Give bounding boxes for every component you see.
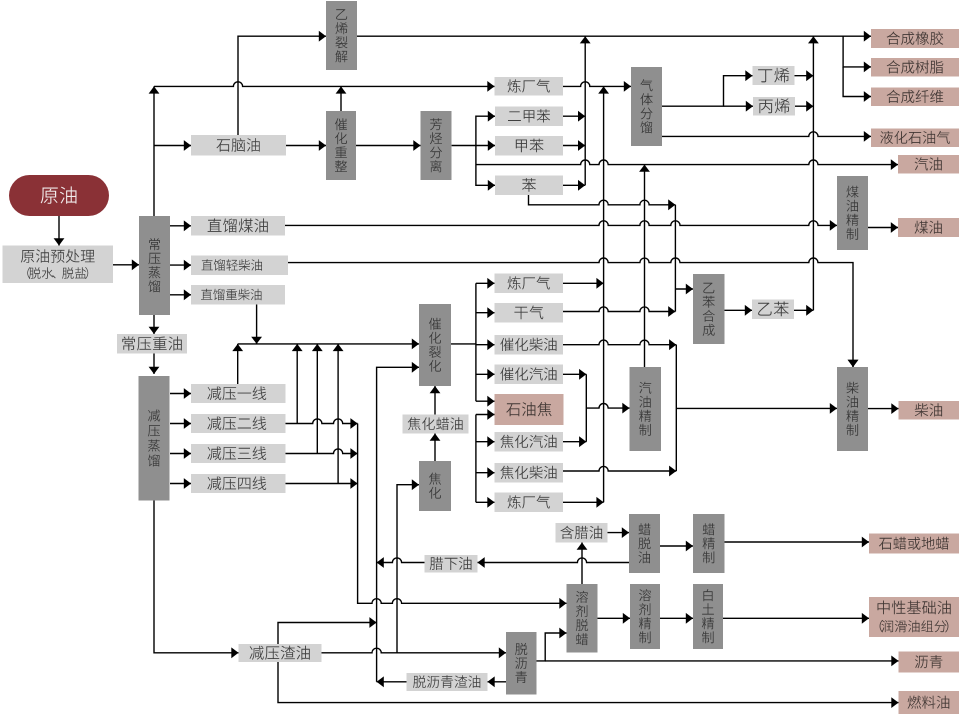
wire EB vertical: [674, 205, 676, 312]
product 柴油 diesel: [899, 401, 959, 420]
wire vac-line2 riser (arrow up): [292, 344, 303, 424]
wire solvent-dewaxing up -> waxy oil: [577, 543, 588, 585]
wire crude->pretreat: [54, 216, 65, 246]
product 汽油 gasoline: [898, 155, 959, 174]
process 原油预处理（脱水、脱盐）: [3, 246, 114, 284]
product 石油焦 petroleum coke: [495, 394, 564, 425]
wire propylene -> olefin riser: [795, 101, 813, 112]
wire naphtha riser -> ethylene cracking: [238, 31, 326, 135]
wire olefin riser up to products rail: [808, 36, 819, 310]
stream 直馏重柴油: [191, 285, 285, 305]
wire vac-line1 riser (arrow up): [232, 344, 243, 384]
stream 丙烯 propylene: [753, 97, 795, 116]
wire refinery-gas#3 -> gas riser: [563, 497, 604, 508]
stream 焦化蜡油: [403, 415, 469, 434]
wire wax-deoiling -> slack wax (腊下油): [478, 557, 630, 568]
wire diesel-refining -> 柴油: [868, 403, 899, 414]
wire solvent collector down -> solvent dewaxing: [358, 424, 567, 609]
wire vac-dist -> line2: [170, 418, 191, 429]
terminator crude-oil 原油: [9, 175, 109, 216]
product 石蜡或地蜡 paraffin/ozokerite: [869, 534, 959, 554]
process 催化裂化 (catalytic cracking): [419, 304, 451, 386]
wire benzene -> aromatics riser: [563, 180, 585, 191]
wire vac-line4 east: [286, 478, 358, 489]
wire coker wax oil up -> FCC: [430, 386, 441, 415]
wire refinery-gas#2 -> gas riser: [563, 278, 604, 289]
stream 焦化柴油: [495, 463, 564, 483]
wire gas-frac -> LPG: [662, 131, 871, 142]
process 白土精制 (clay refining): [693, 584, 723, 649]
process 柴油精制 (diesel refining): [837, 367, 868, 451]
stream 炼厂气 #3: [495, 493, 564, 513]
wire aromatics fan: to benzene: [476, 146, 495, 191]
process 蜡脱油 (wax de-oiling): [629, 514, 660, 573]
stream 直馏煤油: [191, 216, 285, 236]
wire reformer up to gas rail: [336, 86, 347, 111]
process 乙烯裂解 (ethylene cracking): [326, 1, 357, 70]
wire FCC-gasoline -> gasoline collector: [563, 369, 586, 380]
wire wax-deoiling -> wax refining: [660, 541, 693, 552]
process 煤油精制 (kerosene refining): [837, 176, 868, 250]
wire vac-line3 east: [286, 448, 358, 459]
wire coker feed riser: [397, 479, 419, 653]
wire upper fan vertical: [475, 283, 477, 401]
wire coker up -> coker wax oil: [430, 434, 441, 462]
product 沥青 asphalt: [899, 652, 959, 673]
wire reformer -> aromatics separation: [356, 140, 421, 151]
wire deasphalting -> split: [537, 628, 567, 661]
wire slack wax -> recycle riser: [377, 557, 425, 568]
process 减压蒸馏 (vacuum distillation): [139, 376, 170, 501]
wire vacuum-residue top -> FCC recycle riser: [278, 617, 377, 644]
product 煤油 kerosene: [898, 218, 959, 237]
stream 催化汽油: [495, 365, 564, 385]
wire atm-dist -> naphtha: [154, 140, 191, 151]
wire fan -> coker gasoline: [476, 436, 495, 447]
product 合成橡胶 synthetic rubber: [871, 29, 959, 48]
wire gas riser up to gas-fractionation rail: [598, 86, 609, 502]
wire ethylbenzene -> olefin riser: [794, 305, 813, 316]
stream 石脑油 naphtha: [191, 135, 286, 156]
wire fan -> petroleum coke (upper): [476, 396, 495, 407]
wire coker-gasoline -> gasoline collector: [563, 436, 586, 447]
product 合成纤维 synthetic fiber: [871, 88, 959, 107]
stream 丁烯 butene: [753, 66, 795, 85]
wire aromatics fan: to xylene: [452, 111, 495, 146]
stream 减压三线: [191, 444, 286, 463]
wire xylene -> aromatics riser: [563, 111, 585, 122]
wire waxy-oil -> wax deoiling: [608, 527, 630, 538]
stream 减压渣油 vacuum residue: [239, 644, 322, 662]
wire refinery-gas#1 -> gas fractionation: [563, 81, 631, 92]
wire vac-dist -> line4: [170, 478, 191, 489]
process 乙苯合成 (ethylbenzene synthesis): [693, 274, 725, 344]
stream 乙苯 ethylbenzene: [752, 300, 794, 320]
product 合成树脂 synthetic resin: [871, 58, 959, 77]
stream 二甲苯 xylene: [495, 107, 563, 127]
stream 减压一线: [191, 384, 286, 403]
wire deasphalted residue -> recycle riser: [377, 676, 407, 687]
stream 含腊油 waxy oil: [556, 523, 608, 543]
stream 焦化汽油: [495, 432, 564, 452]
wire straight-run heavy diesel down to FCC rail: [251, 305, 262, 344]
wire fan -> refinery gas#2: [476, 278, 495, 289]
wire diesel collector -> diesel refining: [676, 403, 837, 414]
wire fan -> FCC gasoline: [476, 369, 495, 380]
wire solvent-dewaxing -> solvent refining: [598, 613, 631, 624]
wire toluene -> aromatics riser: [563, 140, 585, 151]
wire FCC recycle riser -> catalytic cracking: [377, 362, 419, 682]
wire coker-diesel east -> diesel collector: [563, 466, 676, 477]
wire gasoline rail -> 汽油: [476, 159, 898, 170]
stream 腊下油: [425, 555, 478, 573]
wire vac-line2 east -> solvent collector: [286, 418, 358, 429]
wire aromatics fan: to toluene: [476, 140, 495, 151]
stream 直馏轻柴油: [191, 256, 288, 276]
process 脱沥青 (deasphalting): [506, 632, 537, 695]
wire pretreat->atm-dist: [113, 259, 139, 270]
wire EB vertical -> EB synthesis: [675, 284, 693, 295]
wire vac-dist -> line1: [170, 388, 191, 399]
process 催化重整 (catalytic reforming): [326, 111, 356, 180]
stream 干气 dry gas: [495, 303, 564, 323]
stream 炼厂气 #2: [495, 274, 564, 294]
wire fan -> petroleum coke (lower): [476, 409, 495, 420]
wire fan -> refinery gas#3: [476, 497, 495, 508]
stream 炼厂气 #1: [495, 77, 564, 96]
wire FCC -> product fan: [451, 343, 476, 345]
wire benzene bottom -> EB rail: [529, 195, 676, 210]
wire FCC-diesel east -> diesel collector: [563, 339, 676, 350]
wire vac-dist bottom -> vacuum residue: [154, 501, 239, 659]
product 中性基础油（润滑油组分）: [869, 597, 959, 637]
wire vac-dist -> line3: [170, 448, 191, 459]
wire gasoline-refining riser up to gasoline rail: [639, 165, 650, 367]
stream 脱沥青渣油: [407, 673, 488, 691]
wire vacuum-residue bottom -> fuel oil: [278, 662, 899, 708]
wire vac-line4 riser (arrow up): [333, 344, 344, 484]
wire gas rail -> refinery-gas#1: [154, 81, 495, 92]
process 蜡精制 (wax refining): [693, 514, 725, 573]
wire lower fan vertical: [475, 415, 477, 503]
wire clay-refining -> neutral base oil: [723, 613, 869, 624]
wire kerosene rail -> kerosene refining: [285, 220, 837, 231]
wire solvent-refining -> clay refining: [660, 613, 693, 624]
wire kerosene-refining -> 煤油: [868, 222, 898, 233]
stream 减压二线: [191, 414, 286, 433]
product 燃料油 fuel oil: [899, 691, 959, 714]
wire gasoline collector -> gasoline refining: [586, 403, 629, 414]
process 溶剂精制 (solvent refining): [630, 584, 660, 649]
process 芳烃分离 (aromatics separation): [421, 111, 452, 180]
wire diesel top-feed arrowhead: [848, 360, 859, 367]
stream 减压四线: [191, 474, 286, 493]
wire EB-synthesis -> ethylbenzene: [725, 305, 753, 316]
wire atm-dist -> straight-run heavy diesel: [170, 289, 191, 300]
wire straight-run light diesel -> diesel refining top: [288, 258, 858, 367]
wire vacuum-residue rail -> deasphalting: [322, 647, 507, 658]
wire deasphalting -> deasphalted residue: [488, 676, 507, 687]
stream 甲苯 toluene: [495, 136, 563, 156]
process 气体分馏 (gas fractionation): [631, 67, 662, 146]
wire gasoline collector vertical: [585, 374, 587, 441]
stream 常压重油: [117, 334, 187, 354]
wire naphtha -> reformer: [286, 140, 326, 151]
process 溶剂脱蜡 (solvent dewaxing): [567, 584, 598, 653]
wire diesel collector vertical: [675, 345, 677, 471]
wire FCC feed rail: [238, 339, 419, 350]
stream 苯 benzene: [495, 176, 563, 196]
wire branch down to resin/fiber: [843, 36, 871, 72]
wire wax-refining -> paraffin: [725, 537, 870, 548]
wire branch to synthetic fiber: [843, 67, 871, 102]
wire deasphalting -> asphalt: [545, 656, 898, 667]
process 焦化 (coking): [419, 461, 451, 511]
process 常压蒸馏 (atmospheric distillation): [139, 216, 170, 315]
wire gas-frac -> propylene: [724, 101, 754, 112]
wire atm-heavy-oil -> vacuum distillation: [149, 354, 160, 375]
wire atm-dist top riser to gas rail (arrow up): [149, 86, 160, 216]
wire atm-dist -> straight-run light diesel: [170, 260, 191, 271]
wire aromatics riser up to products rail: [580, 36, 591, 185]
stream 催化柴油: [495, 335, 564, 355]
wire ethylene-cracker -> synthetic rubber rail: [357, 31, 871, 42]
wire fan -> dry gas: [476, 307, 495, 318]
wire atm-dist -> straight-run kerosene: [170, 220, 191, 231]
wire butene -> olefin riser: [795, 70, 814, 81]
wire vac-line3 riser (arrow up): [312, 344, 323, 454]
wire fan -> FCC diesel: [476, 339, 495, 350]
wire atm-dist bottom -> atm heavy oil: [149, 315, 160, 334]
product 液化石油气 LPG: [871, 129, 959, 148]
wire fan -> coker diesel: [476, 467, 495, 478]
wire gas-frac -> butene: [662, 70, 753, 106]
wire dry-gas -> EB vertical: [563, 306, 675, 317]
process 汽油精制 (gasoline refining): [630, 367, 662, 451]
